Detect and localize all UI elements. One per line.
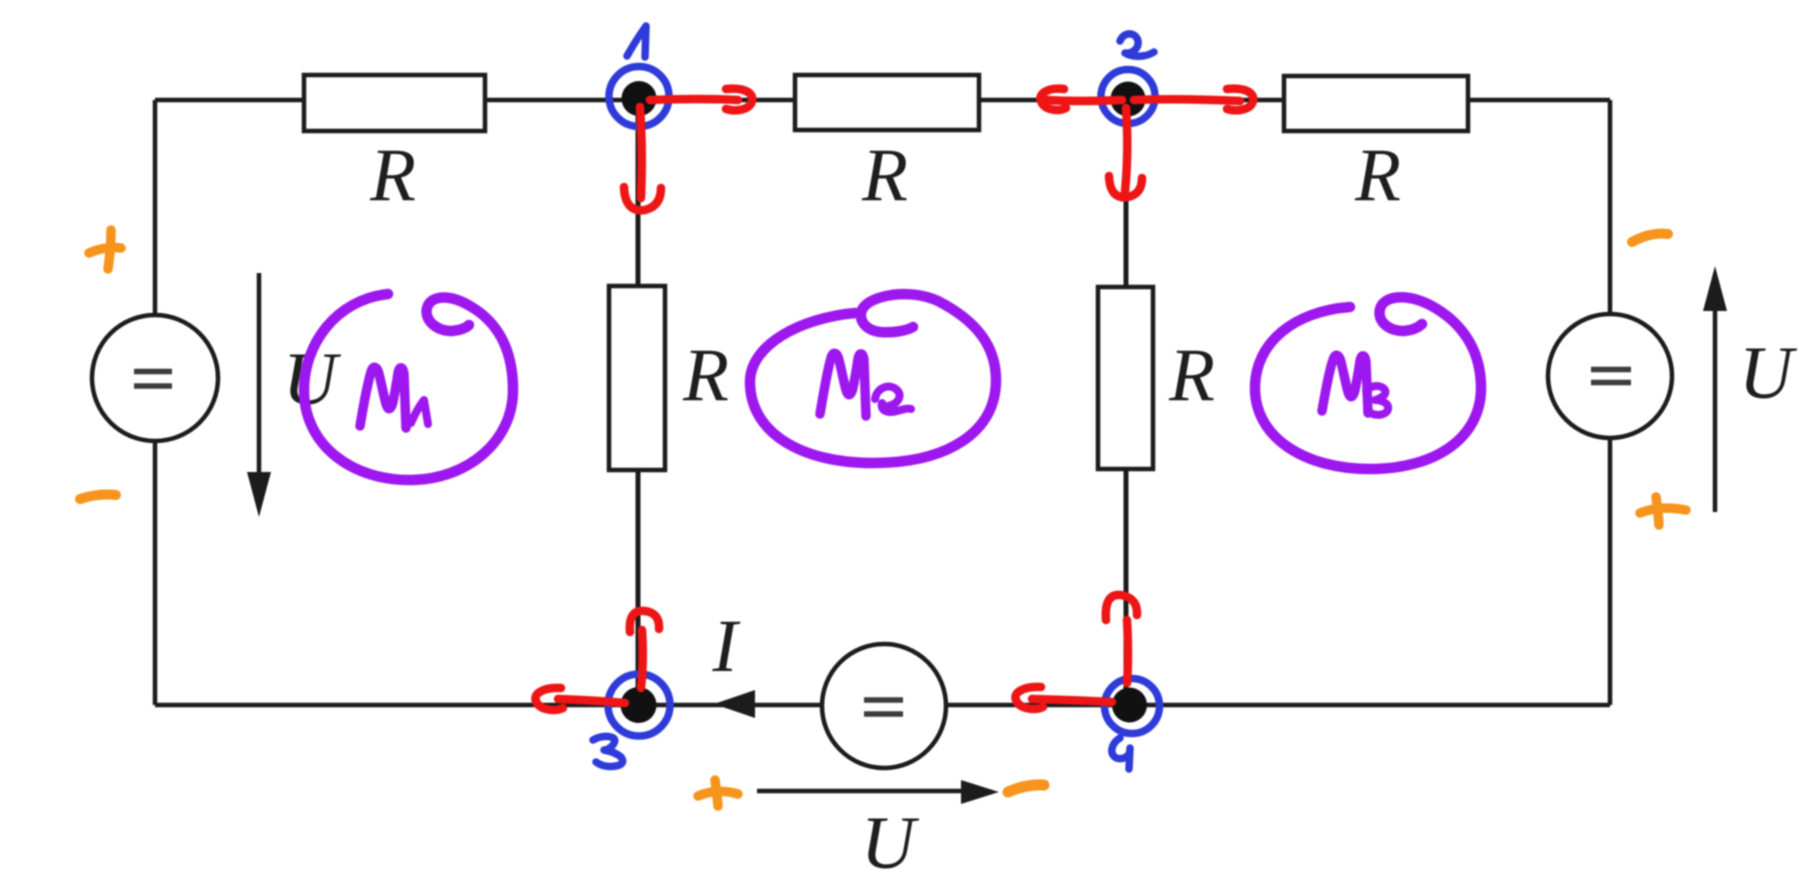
resistor R1 top-left bbox=[304, 75, 485, 131]
red current arrow node3 up bbox=[641, 630, 643, 688]
node 3 dot bbox=[621, 687, 657, 723]
resistor R2 top-middle bbox=[795, 75, 979, 130]
wire middle branch node2-node4 bbox=[1124, 100, 1129, 705]
red current arrow node3 left bbox=[558, 699, 625, 703]
node 4 blue circle bbox=[1105, 679, 1160, 734]
svg-text:R: R bbox=[682, 334, 729, 417]
red current arrow node1 down bbox=[640, 107, 642, 198]
voltage arrow U bottom (right) bbox=[757, 789, 963, 794]
voltage arrow U left (down) bbox=[257, 273, 262, 478]
orange plus right bottom bbox=[1640, 497, 1686, 525]
orange plus bottom bbox=[698, 780, 738, 806]
node label 4 (blue handwritten) bbox=[1112, 738, 1130, 769]
voltage source right bbox=[1548, 314, 1672, 438]
mesh label M1 bbox=[360, 367, 406, 428]
wire bottom bbox=[155, 703, 1610, 708]
svg-text:I: I bbox=[712, 605, 741, 688]
orange minus left bottom bbox=[80, 495, 116, 500]
mesh label M3 bbox=[1322, 355, 1368, 413]
wire top bbox=[155, 98, 1610, 103]
voltage source bottom bbox=[822, 644, 946, 768]
node label 3 (blue handwritten) bbox=[593, 736, 623, 766]
wire middle branch node1-node3 bbox=[636, 100, 641, 705]
svg-text:R: R bbox=[861, 134, 908, 217]
svg-text:R: R bbox=[1354, 134, 1401, 217]
node 2 blue circle bbox=[1101, 70, 1155, 124]
wire right bbox=[1608, 100, 1613, 705]
orange minus bottom bbox=[1008, 785, 1044, 792]
resistor R vertical left branch bbox=[609, 286, 665, 470]
current arrow I (left) on bottom wire bbox=[714, 690, 755, 718]
red current arrow node2 left bbox=[1046, 100, 1122, 101]
node 3 blue circle bbox=[608, 674, 670, 736]
node 1 blue circle bbox=[609, 67, 669, 127]
orange minus right top bbox=[1632, 234, 1668, 242]
node label 2 (blue handwritten) bbox=[1120, 34, 1154, 56]
resistor R vertical right branch bbox=[1098, 287, 1153, 469]
orange plus left top bbox=[89, 230, 121, 269]
svg-text:U: U bbox=[1739, 332, 1798, 415]
mesh loop M1 bbox=[304, 294, 513, 480]
resistor R3 top-right bbox=[1284, 76, 1468, 131]
mesh label M2 bbox=[820, 353, 866, 416]
wire left bbox=[153, 100, 158, 705]
node 2 dot bbox=[1111, 82, 1146, 117]
mesh loop M2 bbox=[750, 294, 996, 463]
red current arrow node2 down bbox=[1125, 108, 1127, 192]
node label 1 (blue handwritten) bbox=[627, 26, 646, 57]
svg-text:U: U bbox=[861, 802, 920, 884]
svg-text:R: R bbox=[1168, 334, 1215, 417]
node 4 dot bbox=[1112, 688, 1147, 723]
voltage arrow U right (up) bbox=[1713, 309, 1718, 512]
mesh loop M3 bbox=[1255, 297, 1481, 469]
red current arrow node2 right bbox=[1134, 99, 1240, 101]
svg-text:R: R bbox=[369, 134, 416, 217]
node 1 dot bbox=[622, 81, 657, 116]
red current arrow node4 up bbox=[1127, 620, 1128, 683]
red current arrow node1 right bbox=[650, 99, 738, 100]
voltage source left bbox=[92, 315, 218, 441]
red current arrow node4 left bbox=[1032, 699, 1112, 702]
